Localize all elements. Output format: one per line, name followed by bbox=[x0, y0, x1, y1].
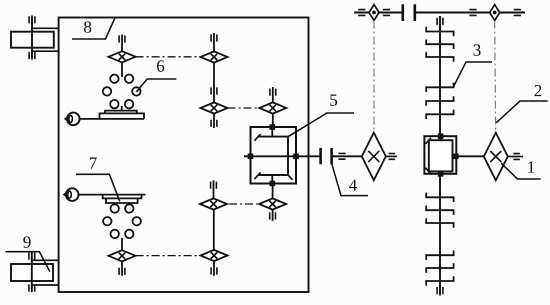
svg-text:8: 8 bbox=[83, 18, 92, 37]
svg-text:6: 6 bbox=[156, 57, 165, 76]
svg-text:2: 2 bbox=[534, 81, 543, 100]
svg-text:9: 9 bbox=[23, 233, 32, 252]
svg-text:5: 5 bbox=[329, 91, 338, 110]
svg-text:4: 4 bbox=[349, 176, 358, 195]
svg-text:1: 1 bbox=[527, 158, 536, 177]
svg-text:7: 7 bbox=[89, 154, 98, 173]
svg-text:3: 3 bbox=[473, 41, 482, 60]
